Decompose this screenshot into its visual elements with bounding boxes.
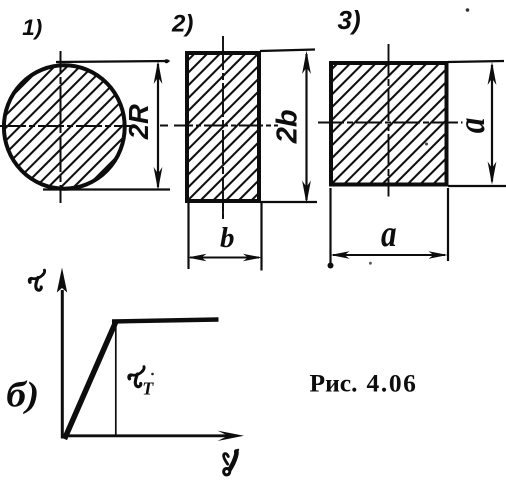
dimension line a (bottom) — [333, 254, 445, 256]
extension line top — [448, 61, 504, 62]
vertical centerline — [60, 51, 62, 203]
speck in square area — [425, 143, 428, 146]
label tau (script glyph) — [29, 270, 44, 290]
extension line down left — [187, 203, 189, 269]
svg-text:2b: 2b — [272, 109, 304, 144]
plateau line (plastic) — [112, 320, 219, 322]
extension line down right — [260, 203, 262, 271]
rising line (elastic) — [65, 323, 116, 440]
svg-text:Рис.: Рис. — [310, 369, 358, 398]
speck top right — [466, 8, 470, 12]
svg-text:a: a — [381, 212, 397, 255]
horizontal centerline — [0, 125, 133, 127]
label gamma (script glyph) — [224, 450, 239, 475]
dot at extension end — [328, 263, 334, 269]
svg-text:T: T — [142, 379, 154, 399]
svg-text:4.06: 4.06 — [367, 369, 418, 398]
dimension line b — [190, 257, 259, 259]
extension line down left — [329, 188, 331, 264]
svg-text:б): б) — [6, 375, 39, 415]
arrowhead tau axis — [57, 268, 67, 293]
svg-text:a: a — [450, 118, 493, 134]
dimension line 2b — [305, 54, 307, 200]
horizontal centerline — [174, 125, 278, 127]
square S3 hatched — [331, 63, 447, 185]
horizontal centerline — [318, 122, 463, 124]
centerline dash right — [160, 125, 168, 127]
svg-text:b: b — [220, 222, 235, 254]
vertical centerline — [222, 36, 224, 219]
extension line down right — [447, 188, 449, 261]
rectangle B2 hatched — [187, 53, 259, 201]
circle C1 hatched — [4, 65, 125, 188]
extension line top — [260, 50, 315, 52]
extension line top — [56, 61, 170, 62]
centerline tail below — [222, 203, 224, 218]
extension line bottom — [260, 201, 317, 203]
label tau_T (script glyph reused) — [129, 367, 144, 387]
thin drop line at yield — [115, 323, 117, 435]
dimension line a (vertical) — [491, 65, 493, 182]
speck below dimension — [369, 262, 372, 265]
svg-text:2): 2) — [171, 11, 193, 38]
vertical centerline — [388, 44, 390, 197]
axis tau (vertical) — [61, 290, 64, 439]
axis gamma (horizontal) — [61, 434, 230, 437]
arrowhead gamma axis — [218, 431, 245, 441]
svg-text:3): 3) — [338, 5, 361, 35]
extension line bottom — [43, 188, 170, 190]
dot after T — [151, 373, 154, 376]
svg-text:1): 1) — [22, 15, 42, 40]
svg-text:2R: 2R — [123, 104, 154, 140]
extension line bottom — [448, 185, 506, 187]
dimension line 2R — [157, 64, 159, 187]
